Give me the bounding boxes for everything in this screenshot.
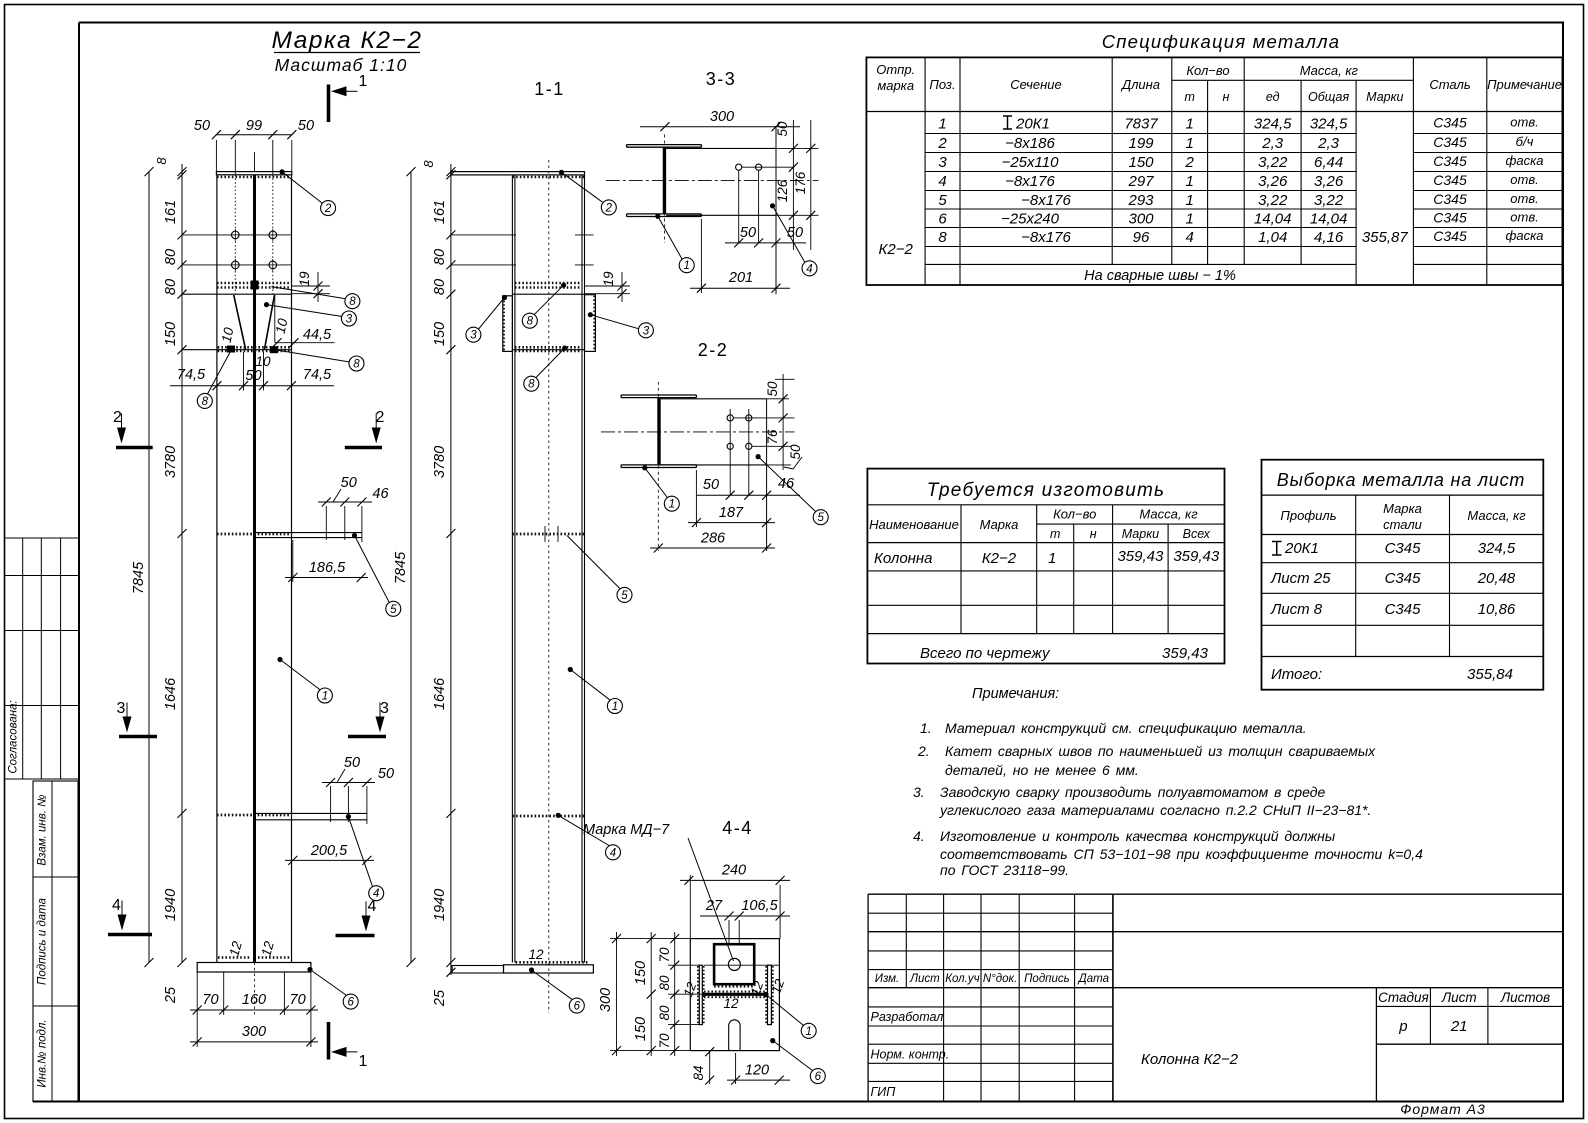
svg-text:186,5: 186,5 (309, 560, 346, 576)
svg-text:б/ч: б/ч (1516, 134, 1534, 149)
svg-text:50: 50 (344, 755, 360, 771)
LV anchor ext lines (223, 972, 225, 1015)
LV flange right (291, 175, 293, 963)
svg-text:Кол.уч: Кол.уч (945, 973, 979, 985)
svg-text:Стадия: Стадия (1378, 990, 1429, 1005)
MV flange pair left (511, 175, 513, 963)
svg-text:Лист: Лист (1441, 990, 1477, 1005)
svg-text:Взам. инв. №: Взам. инв. № (37, 794, 49, 866)
svg-text:14,04: 14,04 (1310, 211, 1348, 228)
svg-text:1: 1 (359, 73, 368, 90)
svg-text:Подпись: Подпись (1024, 973, 1070, 985)
svg-text:50: 50 (378, 766, 394, 782)
tr table frame (867, 469, 1224, 664)
LV dim 19 (292, 285, 331, 287)
svg-text:−25х240: −25х240 (1001, 211, 1060, 228)
svg-text:4: 4 (1186, 229, 1194, 246)
svg-text:3,22: 3,22 (1258, 192, 1288, 209)
svg-text:3,22: 3,22 (1314, 192, 1344, 209)
S4 base plate plan (690, 939, 779, 1051)
section mark 1 top (327, 85, 331, 123)
svg-text:150: 150 (633, 1017, 649, 1041)
svg-text:126: 126 (775, 179, 790, 202)
LV chain dim line (181, 164, 183, 963)
svg-text:Выборка металла на лист: Выборка металла на лист (1277, 470, 1525, 490)
svg-text:соответствовать СП 53−101−98: соответствовать СП 53−101−98 при коэффиц… (940, 846, 1423, 862)
svg-text:С345: С345 (1385, 601, 1422, 618)
svg-text:2,3: 2,3 (1317, 135, 1340, 152)
LV dim 70|160|70 (190, 1009, 318, 1011)
svg-text:50: 50 (740, 225, 756, 241)
svg-text:199: 199 (1128, 135, 1154, 152)
svg-text:300: 300 (710, 109, 734, 125)
svg-text:84: 84 (691, 1065, 706, 1080)
svg-text:Заводскую сварку производить: Заводскую сварку производить полуавтомат… (940, 784, 1325, 800)
svg-text:н: н (1090, 527, 1097, 541)
svg-text:6,44: 6,44 (1314, 154, 1343, 171)
svg-text:8: 8 (349, 296, 356, 308)
svg-text:21: 21 (1450, 1018, 1468, 1035)
LV dim 300 (190, 1041, 318, 1043)
svg-text:1: 1 (359, 1053, 368, 1070)
MV plate3 left (503, 296, 513, 352)
MV weld band lower (515, 346, 582, 349)
MV plate5 stitch (512, 533, 584, 536)
svg-text:1: 1 (1186, 211, 1194, 228)
LV leader balloon 8 left (208, 350, 232, 394)
section mark 1 bottom (327, 1022, 331, 1060)
svg-text:1: 1 (1048, 550, 1056, 567)
svg-text:200,5: 200,5 (310, 843, 348, 859)
svg-text:С345: С345 (1385, 540, 1422, 557)
spec table horizontals (1172, 79, 1414, 81)
svg-text:7837: 7837 (1124, 116, 1158, 133)
MV balloon 8 upper (522, 313, 537, 328)
svg-text:Лист: Лист (909, 973, 940, 985)
svg-text:Общая: Общая (1308, 90, 1349, 104)
svg-text:Отпр.: Отпр. (876, 62, 915, 77)
svg-text:80: 80 (432, 249, 448, 265)
MV dim 19 (585, 285, 631, 287)
LV gusset right slant (264, 295, 274, 350)
LV weld band upper (217, 282, 292, 285)
LV base plate (197, 963, 311, 973)
vb table frame (1262, 460, 1544, 690)
svg-text:К2−2: К2−2 (879, 241, 914, 258)
svg-text:12: 12 (528, 947, 544, 962)
svg-text:4: 4 (112, 897, 121, 914)
svg-text:1940: 1940 (432, 889, 448, 921)
svg-text:1: 1 (938, 116, 946, 133)
svg-text:3-3: 3-3 (706, 69, 737, 89)
svg-text:297: 297 (1127, 173, 1154, 190)
svg-text:70: 70 (657, 1033, 672, 1049)
svg-text:50: 50 (787, 225, 803, 241)
svg-text:4: 4 (373, 888, 379, 900)
svg-text:−8х176: −8х176 (1021, 192, 1071, 209)
svg-text:99: 99 (246, 118, 262, 134)
svg-text:Всех: Всех (1183, 527, 1211, 541)
svg-text:1646: 1646 (163, 677, 179, 710)
svg-text:3: 3 (643, 325, 650, 337)
svg-text:300: 300 (242, 1024, 266, 1040)
svg-text:359,43: 359,43 (1117, 548, 1164, 565)
svg-text:Лист 8: Лист 8 (1270, 601, 1323, 618)
S2 dim 286 (650, 547, 775, 549)
svg-text:1,04: 1,04 (1258, 229, 1287, 246)
S2 plate5 right edge (766, 399, 768, 551)
svg-text:2: 2 (376, 409, 385, 426)
svg-text:50: 50 (703, 477, 719, 493)
LV dim 74,5|50|74,5 (170, 385, 334, 387)
svg-text:161: 161 (163, 200, 179, 224)
svg-text:С345: С345 (1433, 153, 1467, 169)
S3 chain inner (792, 120, 794, 250)
svg-text:8: 8 (938, 229, 947, 246)
svg-text:8: 8 (527, 316, 534, 328)
LV line under plate8 (182, 293, 292, 295)
svg-text:углекислого газа материалами: углекислого газа материалами согласно п.… (939, 802, 1371, 818)
S2 leader balloon 1 (642, 465, 647, 470)
svg-text:−8х176: −8х176 (1021, 229, 1071, 246)
svg-text:m: m (1184, 90, 1194, 104)
LV leader balloon 4 (346, 814, 351, 819)
MV chain dim line (450, 164, 452, 975)
tr table verticals (960, 505, 962, 634)
MV chain ticks (446, 167, 455, 176)
svg-text:фаска: фаска (1506, 228, 1544, 243)
svg-text:201: 201 (728, 270, 753, 286)
MV leader balloon 6 (529, 967, 534, 972)
LV chain ticks (178, 167, 187, 176)
S2 ext top (767, 398, 789, 400)
vb row1 (1272, 541, 1282, 543)
svg-text:3780: 3780 (163, 446, 179, 478)
svg-text:355,87: 355,87 (1362, 229, 1409, 246)
svg-text:−25х110: −25х110 (1002, 154, 1060, 171)
MV centerline (548, 160, 550, 1013)
svg-text:8: 8 (528, 379, 535, 391)
left strip top boxes (22, 538, 24, 779)
S4 flange bar left (699, 965, 702, 1024)
svg-text:3,22: 3,22 (1258, 154, 1288, 171)
svg-text:25: 25 (163, 986, 179, 1004)
svg-text:н: н (1222, 90, 1229, 104)
S3 balloon 1 (679, 258, 694, 273)
svg-text:27: 27 (705, 898, 723, 914)
S4 chain 70-80 (674, 932, 676, 1056)
svg-text:фаска: фаска (1506, 153, 1544, 168)
S3 centerline vertical (663, 135, 665, 244)
LV weld dots lower (227, 346, 235, 353)
svg-text:3: 3 (938, 154, 947, 171)
svg-text:70: 70 (657, 947, 672, 963)
svg-text:20,48: 20,48 (1477, 570, 1516, 587)
svg-text:176: 176 (793, 171, 808, 194)
svg-text:1.: 1. (920, 720, 932, 736)
svg-text:Кол−во: Кол−во (1053, 507, 1096, 522)
MV balloon 3 left (466, 327, 481, 342)
svg-text:1: 1 (1186, 116, 1194, 133)
svg-text:150: 150 (432, 322, 448, 346)
svg-text:Профиль: Профиль (1280, 508, 1336, 523)
svg-text:отв.: отв. (1510, 172, 1538, 187)
svg-text:Масса, кг: Масса, кг (1139, 507, 1198, 522)
LV line at gusset bottom (182, 349, 292, 351)
LV bolts (232, 231, 240, 239)
svg-text:1940: 1940 (163, 889, 179, 921)
S4 ext horizontals (610, 938, 690, 940)
svg-text:Дата: Дата (1077, 973, 1109, 985)
svg-text:5: 5 (817, 512, 824, 524)
svg-text:Лист 25: Лист 25 (1270, 570, 1331, 587)
svg-text:Масштаб 1:10: Масштаб 1:10 (275, 55, 408, 75)
svg-text:Всего по чертежу: Всего по чертежу (920, 645, 1051, 662)
svg-text:4-4: 4-4 (722, 818, 753, 838)
svg-text:50: 50 (788, 444, 803, 460)
S3 dim 201 (690, 287, 790, 289)
svg-text:1: 1 (322, 691, 328, 703)
S4 dim 120 (727, 1079, 790, 1081)
svg-text:Сталь: Сталь (1429, 77, 1470, 92)
LV top dim 50|99|50 (216, 134, 291, 136)
tr table horizontals (867, 504, 1224, 506)
svg-text:50: 50 (341, 475, 357, 491)
svg-text:3: 3 (470, 330, 477, 342)
LV gusset left slant (234, 295, 246, 350)
svg-text:150: 150 (1128, 154, 1154, 171)
svg-text:Марка: Марка (1383, 501, 1422, 516)
svg-text:2-2: 2-2 (698, 340, 729, 360)
S2 I-section (621, 394, 696, 396)
svg-text:Кол−во: Кол−во (1186, 63, 1229, 78)
svg-text:Формат А3: Формат А3 (1400, 1101, 1486, 1117)
svg-text:2: 2 (605, 202, 613, 214)
svg-text:С345: С345 (1433, 228, 1467, 244)
MV leader balloon 3 right (588, 312, 593, 317)
MV leader balloon 4 (556, 813, 561, 818)
LV gusset ref line (274, 295, 276, 343)
S3 balloon 4 (802, 261, 817, 276)
svg-text:Подпись и дата: Подпись и дата (37, 898, 49, 985)
LV bolt row line 2 (182, 264, 292, 266)
LV overall dim line 7845 (148, 172, 150, 963)
LV flange left (216, 175, 218, 963)
LV leader balloon 8 upper (271, 287, 345, 299)
LV balloon 4 (369, 886, 384, 901)
S3 chain outer (810, 120, 812, 250)
MV base plate (452, 966, 503, 974)
vb table verticals (1355, 495, 1357, 656)
svg-text:187: 187 (719, 505, 744, 521)
S4 leader balloon 6 (770, 1038, 775, 1043)
MV balloon 8 lower (524, 376, 539, 391)
svg-text:324,5: 324,5 (1254, 116, 1292, 133)
svg-text:2,3: 2,3 (1261, 135, 1284, 152)
LV bolt gauge line left (234, 175, 236, 294)
svg-text:С345: С345 (1433, 134, 1467, 150)
LV balloon 5 (386, 601, 401, 616)
svg-text:деталей, но не менее 6 мм: деталей, но не менее 6 мм. (945, 762, 1139, 778)
svg-text:4: 4 (610, 847, 616, 859)
svg-text:3: 3 (117, 700, 126, 717)
MV leader balloon 2 (559, 170, 564, 175)
svg-text:6: 6 (938, 211, 947, 228)
LV dim 200,5 (285, 859, 374, 861)
S4 dim 27|106,5 (700, 915, 790, 917)
LV bolt gauge line right (272, 175, 274, 294)
svg-text:20К1: 20К1 (1015, 116, 1050, 133)
svg-text:324,5: 324,5 (1310, 116, 1348, 133)
LV balloon 1 (317, 688, 332, 703)
S3 centerline horizontal (606, 180, 819, 182)
svg-text:Марка К2−2: Марка К2−2 (272, 27, 423, 54)
svg-text:50: 50 (298, 118, 314, 134)
svg-text:4: 4 (938, 173, 946, 190)
svg-text:Масса, кг: Масса, кг (1300, 63, 1359, 78)
MV balloon 5 (617, 587, 632, 602)
svg-text:70: 70 (202, 992, 218, 1008)
S2 centerline horizontal (601, 431, 795, 433)
S2 plate5 top edge (661, 398, 767, 400)
svg-text:50: 50 (194, 118, 210, 134)
svg-text:150: 150 (633, 961, 649, 985)
svg-text:7845: 7845 (393, 551, 409, 584)
S2 leader balloon 5 (756, 454, 761, 459)
svg-text:359,43: 359,43 (1173, 548, 1220, 565)
svg-text:14,04: 14,04 (1254, 211, 1292, 228)
svg-text:Марки: Марки (1366, 90, 1403, 104)
S3 plate4 right edge (775, 127, 777, 295)
svg-text:3: 3 (380, 700, 389, 717)
svg-text:160: 160 (242, 992, 266, 1008)
MV overall dim line 7845 (410, 172, 412, 963)
svg-text:74,5: 74,5 (177, 367, 206, 383)
svg-text:50: 50 (775, 121, 790, 137)
S4 dim 240 (680, 879, 790, 881)
S4 leader balloon 1 (763, 992, 768, 997)
S3 leader balloon 4 (770, 203, 775, 208)
svg-text:3780: 3780 (432, 446, 448, 478)
svg-text:50: 50 (765, 381, 780, 397)
S4 plate MD-7 (714, 944, 754, 984)
LV web (253, 175, 256, 963)
LV web centerline below base (254, 963, 256, 1016)
MV plate4 stitch (512, 815, 584, 818)
svg-text:С345: С345 (1433, 115, 1467, 131)
svg-text:6: 6 (347, 997, 354, 1009)
svg-text:С345: С345 (1385, 570, 1422, 587)
S2 balloon 1 (664, 496, 679, 511)
LV bolt row line 1 (182, 234, 292, 236)
svg-text:Наименование: Наименование (869, 517, 959, 532)
svg-text:2: 2 (937, 135, 947, 152)
S2 centerline vertical (657, 382, 659, 551)
svg-text:Марки: Марки (1122, 527, 1159, 541)
svg-text:3.: 3. (913, 784, 925, 800)
LV weld band lower (218, 346, 290, 349)
svg-text:355,84: 355,84 (1467, 666, 1513, 683)
svg-text:Норм. контр.: Норм. контр. (871, 1048, 950, 1062)
svg-text:m: m (1050, 527, 1060, 541)
LV leader balloon 6 (307, 967, 312, 972)
S4 balloon 6 (810, 1069, 825, 1084)
svg-text:1: 1 (612, 701, 618, 713)
svg-text:80: 80 (163, 249, 179, 265)
MV bolt row lines (451, 234, 516, 236)
svg-text:80: 80 (163, 279, 179, 295)
svg-text:1: 1 (1186, 173, 1194, 190)
MV line under plate8 (512, 293, 584, 295)
MV balloon 6 (569, 998, 584, 1013)
svg-text:240: 240 (721, 863, 746, 879)
S3 right ext lines (776, 147, 819, 149)
S3 plate4 bottom edge (666, 214, 776, 216)
svg-text:−8х176: −8х176 (1005, 173, 1055, 190)
svg-text:25: 25 (432, 989, 448, 1007)
spec table frame (866, 57, 1562, 285)
LV balloon 3 (341, 311, 356, 326)
svg-text:С345: С345 (1433, 172, 1467, 188)
svg-text:80: 80 (657, 975, 672, 991)
LV dim 186,5 (285, 577, 368, 579)
svg-text:1: 1 (1186, 192, 1194, 209)
svg-text:Сечение: Сечение (1010, 77, 1061, 92)
svg-text:3,26: 3,26 (1258, 173, 1288, 190)
svg-text:Материал конструкций см. сп: Материал конструкций см. спецификацию ме… (945, 720, 1307, 736)
svg-text:286: 286 (700, 531, 726, 547)
S4 balloon 1 (801, 1023, 816, 1038)
S4 anchor slot (728, 1026, 730, 1051)
svg-text:ед: ед (1266, 90, 1280, 104)
svg-text:359,43: 359,43 (1162, 645, 1209, 662)
svg-text:С345: С345 (1433, 210, 1467, 226)
LV dims 50|46 upper (318, 501, 372, 503)
svg-text:5: 5 (621, 590, 628, 602)
svg-text:Согласована:: Согласована: (8, 700, 20, 773)
LV plate4 edge (255, 812, 367, 814)
svg-text:19: 19 (601, 271, 616, 287)
S4 web (702, 993, 767, 996)
svg-text:4: 4 (806, 263, 812, 275)
svg-text:8: 8 (154, 157, 169, 165)
S3 dim 50|50 (725, 242, 806, 244)
S3 leader balloon 1 (655, 214, 660, 219)
svg-text:отв.: отв. (1510, 115, 1538, 130)
S2 bolts (727, 415, 733, 421)
LV dim 44,5 (275, 342, 335, 344)
S4 ext verticals (689, 875, 691, 939)
svg-text:−8х186: −8х186 (1005, 135, 1055, 152)
svg-text:1646: 1646 (432, 677, 448, 710)
svg-text:150: 150 (163, 322, 179, 346)
S2 balloon 5 (813, 510, 828, 525)
svg-text:46: 46 (372, 486, 389, 502)
MV leader balloon 1 (568, 667, 573, 672)
S3 dim 300 (640, 126, 800, 128)
svg-text:Марка МД−7: Марка МД−7 (583, 822, 670, 838)
svg-text:44,5: 44,5 (303, 327, 332, 343)
svg-text:2: 2 (113, 409, 122, 426)
S2 dim 50|46 (697, 494, 800, 496)
svg-text:Колонна К2−2: Колонна К2−2 (1141, 1051, 1239, 1068)
LV dims 50|50 lower (322, 782, 375, 784)
svg-text:Катет сварных швов по наим: Катет сварных швов по наименьшей из толщ… (945, 743, 1376, 759)
S2 plate5 bottom edge (661, 464, 767, 466)
MV top plate (451, 172, 585, 175)
S4 hole (728, 958, 740, 970)
svg-text:20К1: 20К1 (1284, 540, 1319, 557)
